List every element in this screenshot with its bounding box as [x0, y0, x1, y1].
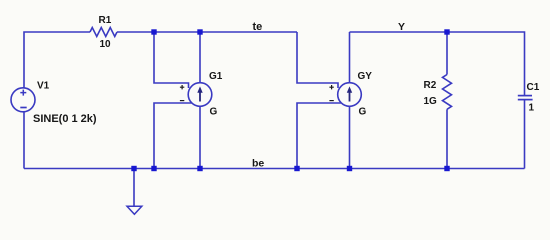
- svg-text:SINE(0 1 2k): SINE(0 1 2k): [33, 113, 97, 125]
- op-amp U? no: current source G1 circle: [188, 83, 212, 107]
- ground: [127, 206, 142, 214]
- wire: te corner down to GY plus stub: [297, 32, 338, 88]
- svg-text:be: be: [252, 158, 264, 170]
- resistor R1: [90, 28, 117, 37]
- svg-text:R1: R1: [99, 15, 112, 26]
- wire: G1 output bottom lead: [199, 106, 201, 168]
- wire: G1 minus stub down to bottom rail: [154, 103, 192, 169]
- V1 minus mark: [20, 107, 26, 109]
- junction dot be/G1 output: [197, 166, 202, 171]
- wire: te down to G1 plus stub: [154, 32, 189, 88]
- capacitor C1 plates: [518, 96, 533, 100]
- GY minus mark: [329, 100, 333, 102]
- wire: top rail node Y from GY to C1 top: [350, 32, 525, 95]
- GY arrow: [347, 86, 352, 101]
- wire: R2 bottom lead: [446, 109, 448, 168]
- wire: top rail node te from R1 to corner: [117, 31, 297, 33]
- wire: C1 bottom lead: [524, 100, 526, 169]
- G1 minus mark: [180, 100, 184, 102]
- wire: R2 top lead: [446, 32, 448, 75]
- junction dot te/G1 feed: [151, 29, 156, 34]
- wire: V1 top lead up and right to R1 left terminal: [24, 32, 90, 88]
- junction dot be/G1 minus: [151, 166, 156, 171]
- wire: GY minus stub down to bottom rail: [297, 103, 341, 169]
- junction dot te/G1 output: [197, 29, 202, 34]
- wire: GY output top lead: [349, 32, 351, 83]
- G1 arrow: [197, 86, 202, 101]
- svg-text:10: 10: [100, 39, 112, 50]
- svg-text:1: 1: [529, 103, 535, 114]
- junction dot be/R2: [444, 166, 449, 171]
- resistor R2: [443, 75, 452, 110]
- svg-text:V1: V1: [37, 81, 50, 92]
- junction dot Y/R2: [444, 29, 449, 34]
- GY plus mark: [329, 85, 333, 89]
- svg-text:C1: C1: [527, 82, 540, 93]
- wire: ground stub: [133, 169, 135, 207]
- V1 plus mark: [20, 90, 26, 96]
- wire: V1 bottom lead: [23, 112, 25, 169]
- svg-text:1G: 1G: [424, 96, 438, 107]
- G1 plus mark: [180, 85, 184, 89]
- junction dot be/GY output: [347, 166, 352, 171]
- svg-text:Y: Y: [398, 21, 405, 33]
- svg-text:GY: GY: [358, 71, 373, 82]
- wire: G1 output top lead: [199, 32, 201, 83]
- voltage source V1 circle: [11, 88, 35, 112]
- svg-text:te: te: [253, 21, 263, 33]
- current source GY circle: [338, 83, 362, 107]
- wire: bottom rail node be: [24, 168, 525, 170]
- svg-text:G: G: [359, 107, 367, 118]
- svg-text:G: G: [210, 107, 218, 118]
- junction dot be/GY minus: [294, 166, 299, 171]
- svg-text:G1: G1: [209, 71, 223, 82]
- junction dot be/ground: [131, 166, 136, 171]
- wire: GY output bottom lead: [349, 106, 351, 168]
- svg-text:R2: R2: [424, 80, 437, 91]
